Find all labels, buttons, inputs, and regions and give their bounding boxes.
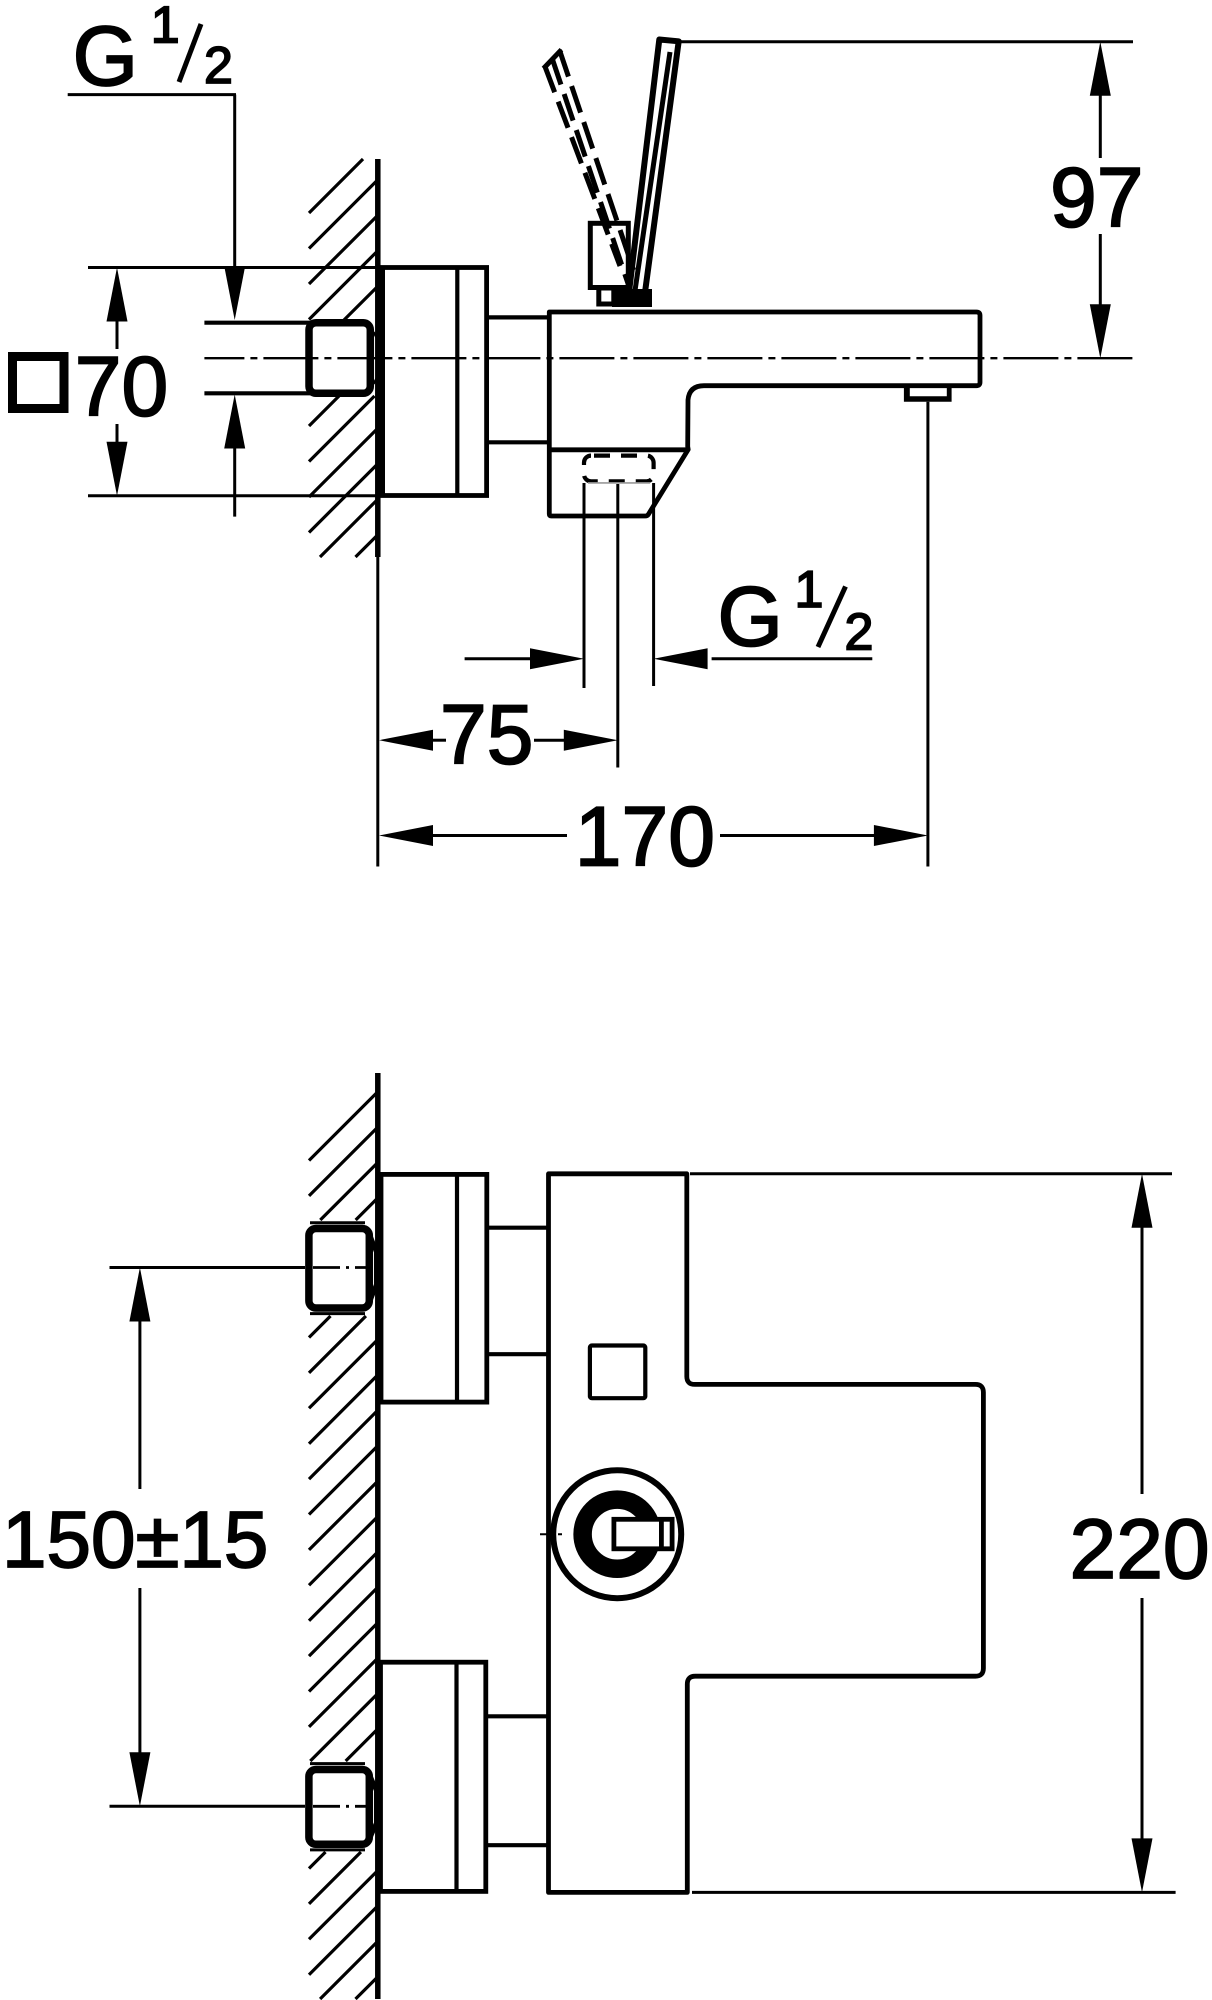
label G 1/2 top-left: [68, 0, 236, 266]
dim 97: [1050, 42, 1143, 358]
wall hatching (top view): [309, 159, 378, 557]
body lower separation line (top view): [549, 447, 688, 452]
lever handle alternate position (dashed): [544, 47, 634, 289]
centerline tick at body left edge (knob height): [540, 1533, 562, 1535]
union nut (top view): [309, 323, 370, 394]
dim 97 extension line (lever top level): [663, 40, 1133, 43]
lever handle solid (top view): [628, 40, 679, 304]
dim 170: [379, 790, 928, 884]
svg-text:150±15: 150±15: [2, 1495, 268, 1584]
upper union nut (bottom view): [309, 1223, 377, 1314]
svg-text:G: G: [718, 569, 783, 663]
svg-text:G: G: [73, 9, 138, 103]
mixer body with spout outline (top view): [549, 312, 980, 516]
svg-text:75: 75: [440, 688, 533, 782]
square symbol of dim 70: [13, 357, 65, 409]
connector pipe flange-to-body (top view): [487, 317, 550, 442]
pipe end arc behind nut: [370, 331, 380, 385]
horizontal centerline (top view): [204, 357, 1133, 359]
spout mousseur outlet (top view): [904, 384, 952, 402]
upper wall flange (bottom view): [381, 1174, 487, 1402]
lever shaft post: [590, 223, 628, 287]
extension lines below body: outlet edges and centerline: [584, 483, 654, 768]
dim G 1/2 (outlet) arrows: [465, 648, 873, 669]
G 1/2 leader arrow pointing to inlet pipe top: [224, 266, 245, 320]
svg-text:70: 70: [75, 340, 168, 434]
label G 1/2 middle: [718, 561, 874, 663]
svg-text:1: 1: [151, 0, 180, 55]
knob lever tab: [614, 1519, 672, 1549]
svg-text:2: 2: [845, 604, 874, 662]
mixer body front view outline: [549, 1174, 984, 1893]
hand shower outlet thread, hidden (dashed, top view): [584, 456, 654, 482]
dim 150±15 extension line upper: [110, 1266, 306, 1269]
lower connector pipe (bottom view): [486, 1716, 550, 1845]
svg-text:170: 170: [575, 790, 715, 884]
dim 70 extension lines: [88, 266, 381, 269]
upper connector pipe (bottom view): [487, 1228, 550, 1355]
svg-text:1: 1: [795, 561, 824, 619]
wall extension line continued down (top view dims): [376, 557, 379, 867]
svg-text:2: 2: [204, 37, 233, 95]
extension line from mousseur down (for dim 170): [926, 402, 929, 867]
svg-text:220: 220: [1070, 1502, 1210, 1596]
upper connection centerline dashes: [313, 1266, 371, 1269]
dim 150±15: [2, 1268, 268, 1807]
wall flange / escutcheon (top view): [383, 268, 487, 496]
lower union nut (bottom view): [309, 1764, 377, 1850]
G 1/2 lower gauge arrow at inlet pipe bottom: [224, 395, 245, 517]
knob outer circle (front view): [553, 1470, 681, 1598]
diverter square button (front view): [590, 1346, 645, 1399]
dim 75: [379, 688, 618, 782]
wall face line (bottom view): [375, 1073, 381, 1999]
knob inner ring: [583, 1500, 652, 1569]
dim 220: [1070, 1174, 1210, 1893]
wall hatching (bottom view): [309, 1092, 378, 1999]
dim 150±15 extension line lower: [110, 1805, 306, 1808]
lower wall flange (bottom view): [381, 1662, 486, 1891]
wall face line (top view): [375, 159, 381, 557]
dim 220 extension lines: [690, 1174, 1176, 1893]
inlet pipe at wall (top view): [204, 323, 311, 394]
lever foot dark parts: [599, 288, 652, 307]
svg-text:97: 97: [1050, 151, 1143, 245]
lower connection centerline dashes: [313, 1805, 371, 1808]
dim 70 dimension line with arrows: [107, 268, 128, 496]
